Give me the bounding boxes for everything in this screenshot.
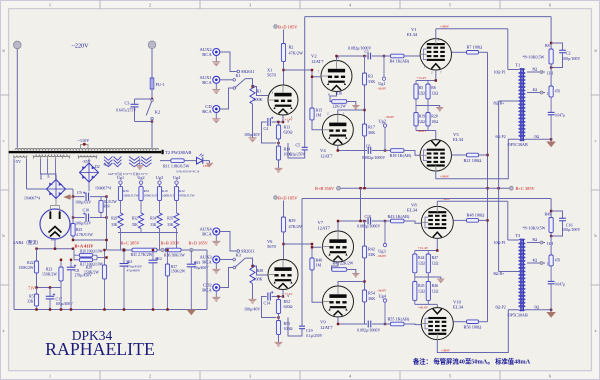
wire CD to K1	[220, 88, 233, 109]
resistor R23 150K/2W	[60, 260, 62, 267]
svg-text:B+D 185V: B+D 185V	[278, 196, 298, 201]
svg-text:D2: D2	[95, 165, 100, 169]
svg-text:R28: R28	[86, 265, 92, 269]
svg-text:C3: C3	[125, 101, 130, 106]
svg-text:0.082µ/1000V: 0.082µ/1000V	[357, 328, 380, 333]
resistor R15 1M	[311, 77, 313, 108]
resistor R17 36K	[362, 124, 366, 136]
capacitor C6 0.082u/1000V	[367, 147, 369, 154]
svg-text:R45: R45	[418, 284, 425, 288]
svg-text:R31 2.7K/2W: R31 2.7K/2W	[131, 253, 153, 257]
svg-text:R34: R34	[150, 217, 156, 221]
resistor R21 100R	[467, 153, 479, 157]
svg-text:100K/0.5W: 100K/0.5W	[123, 194, 139, 198]
wire V2 cathode to R16	[330, 92, 337, 102]
wire V2 plate row	[336, 56, 338, 61]
svg-text:R21 100Ω: R21 100Ω	[464, 158, 482, 163]
svg-text:R5: R5	[29, 294, 34, 298]
wire mains right upper	[151, 49, 153, 78]
svg-text:R25: R25	[76, 228, 82, 232]
capacitor C4 100u/40V	[272, 121, 283, 123]
wire V1 cathode to R5 R6	[435, 70, 437, 81]
svg-text:C12: C12	[156, 257, 162, 261]
capacitor zobel 0.047u	[550, 97, 552, 112]
svg-text:100µ/100V: 100µ/100V	[562, 56, 580, 61]
svg-text:12Ω: 12Ω	[418, 289, 425, 293]
resistor R11 1.8K/0.5W	[160, 160, 171, 162]
svg-text:12Ω: 12Ω	[432, 261, 439, 265]
svg-text:B+A 411V: B+A 411V	[75, 243, 95, 248]
transformer T3 secondary winding	[521, 239, 525, 310]
resistor R13 620R	[278, 122, 280, 125]
wire V6 cathode node	[282, 290, 284, 297]
svg-text:4.7K/0.5W: 4.7K/0.5W	[76, 233, 93, 237]
svg-text:C1: C1	[365, 50, 370, 54]
node Ug2 junction	[384, 149, 386, 151]
resistor R1 100K	[250, 85, 255, 104]
capacitor C5 0.1u/250V feedback	[304, 17, 306, 147]
svg-text:RCA: RCA	[202, 288, 212, 293]
svg-text:B+D 185V: B+D 185V	[278, 25, 298, 30]
wire R42-R54 column	[364, 258, 366, 290]
wire K3 common to R38	[245, 258, 252, 264]
resistor R19 12R	[414, 113, 418, 127]
svg-text:V9: V9	[320, 320, 326, 325]
wire C9-C10 left column	[72, 197, 74, 218]
svg-text:C11: C11	[127, 260, 133, 264]
svg-text:8Ω: 8Ω	[533, 238, 538, 242]
svg-text:R23: R23	[46, 267, 52, 271]
wire R1 to ground	[252, 104, 254, 138]
wire X1 cathode node	[282, 116, 284, 123]
resistor R22 150K/2W	[36, 249, 38, 261]
svg-text:4: 4	[349, 374, 351, 379]
ground under R53	[275, 341, 283, 343]
svg-text:-36.8V: -36.8V	[377, 86, 387, 90]
wire AUX2 to relay contact	[220, 52, 237, 72]
resistor R27 100R/10W	[74, 259, 79, 261]
svg-text:*8~10K0.5W: *8~10K0.5W	[523, 54, 545, 59]
svg-text:d: d	[3, 48, 5, 53]
resistor R44 12R	[413, 254, 417, 273]
svg-text:+399V: +399V	[440, 174, 450, 178]
svg-text:2: 2	[149, 374, 151, 379]
transformer T2 secondary HV	[33, 156, 70, 157]
svg-text:C4: C4	[264, 126, 269, 131]
svg-text:Ug4: Ug4	[379, 293, 387, 298]
T3 secondary tap 8ohm	[527, 242, 545, 244]
svg-text:+398V: +398V	[440, 25, 450, 29]
capacitor C13 10u/400V	[190, 250, 192, 264]
svg-text:620Ω: 620Ω	[284, 304, 293, 309]
svg-text:a: a	[595, 328, 597, 333]
wire CD2 to K3	[220, 268, 233, 288]
wire R39 to V6 plate	[283, 232, 285, 260]
svg-text:R44: R44	[418, 256, 425, 260]
svg-text:K3: K3	[236, 253, 241, 258]
mains terminal L	[13, 41, 21, 49]
T1 secondary tap 8ohm	[527, 71, 545, 73]
svg-text:R12: R12	[179, 189, 185, 193]
svg-text:5670: 5670	[267, 73, 277, 78]
wire AUX3 to K3	[220, 259, 233, 261]
resistor R-zobel 470	[549, 86, 553, 97]
svg-text:+399V: +399V	[441, 197, 451, 201]
wire right filter column	[106, 197, 108, 250]
resistor R29 33K	[118, 213, 123, 229]
resistor R46 12R	[426, 282, 430, 301]
svg-text:100µ/40V: 100µ/40V	[244, 132, 260, 137]
resistor R10 100K/0.5W	[157, 187, 161, 201]
svg-text:6: 6	[549, 374, 551, 379]
wire R34 bottom	[159, 229, 161, 233]
svg-text:5670: 5670	[267, 244, 277, 249]
wire K1 common to R1	[245, 79, 252, 85]
svg-text:0.1µ/250V: 0.1µ/250V	[306, 334, 323, 338]
svg-text:R22: R22	[27, 261, 33, 265]
svg-text:R2: R2	[289, 44, 294, 49]
wire AUX4 to relay contact	[220, 232, 237, 252]
svg-text:12Ω: 12Ω	[418, 120, 425, 124]
svg-text:1N4007*4: 1N4007*4	[24, 197, 40, 201]
svg-text:R49: R49	[545, 211, 552, 216]
svg-text:-6.3V: -6.3V	[103, 163, 112, 167]
svg-text:470K/0.5W: 470K/0.5W	[179, 194, 195, 198]
resistor R5 12R	[414, 84, 418, 99]
transformer T1 core	[520, 68, 522, 141]
svg-text:0Ω: 0Ω	[535, 135, 540, 139]
svg-text:Ug2: Ug2	[379, 118, 386, 123]
wire R44 R47 mid node	[414, 273, 416, 282]
svg-text:R10: R10	[162, 189, 168, 193]
bias feed Ug4	[384, 302, 386, 324]
svg-text:12Ω: 12Ω	[431, 91, 438, 95]
wire T3 P1 feed	[507, 201, 509, 240]
wire R29 bottom	[120, 229, 122, 233]
svg-text:47K/2W: 47K/2W	[289, 50, 303, 55]
transformer T2 core bar	[9, 151, 162, 153]
wire R38 to ground	[252, 284, 254, 300]
svg-text:0.082µ/1000V: 0.082µ/1000V	[348, 45, 371, 50]
resistor R3 33K	[364, 56, 366, 73]
wire 71V row	[36, 273, 38, 288]
svg-text:SR2611: SR2611	[241, 69, 255, 74]
resistor R42 33K	[362, 246, 366, 258]
svg-text:R41 22K/2W: R41 22K/2W	[333, 262, 354, 266]
svg-text:-5V: -5V	[15, 159, 22, 164]
ground under R14	[275, 167, 283, 169]
wire V8 screen to R48	[453, 219, 466, 221]
svg-text:R6: R6	[431, 86, 436, 90]
svg-text:-36.8V: -36.8V	[377, 254, 387, 258]
svg-text:R46: R46	[432, 284, 439, 288]
resistor R56 100R	[467, 320, 479, 324]
svg-text:36K: 36K	[368, 130, 375, 135]
capacitor C3	[135, 98, 153, 100]
RCA jack AUX3	[213, 256, 220, 263]
svg-text:R11 1.8K/0.5W: R11 1.8K/0.5W	[163, 163, 190, 168]
wire R45 R46 bottom to V10	[414, 300, 416, 304]
svg-text:100K: 100K	[254, 97, 263, 102]
svg-text:R48 100Ω: R48 100Ω	[467, 213, 485, 218]
wire T1 T3 B+ vertical	[498, 101, 500, 272]
svg-text:b: b	[3, 233, 5, 238]
svg-text:FU-1: FU-1	[156, 82, 165, 87]
svg-text:8Ω: 8Ω	[533, 68, 538, 72]
node B+D 185V upper	[274, 25, 278, 29]
svg-text:~110V: ~110V	[78, 138, 91, 143]
T3 secondary tap 4ohm	[527, 262, 545, 264]
resistor R41 22K/2W	[332, 268, 347, 272]
bridge rectifier D2	[80, 163, 99, 182]
wire V7 cathode to R41	[332, 262, 339, 270]
svg-text:R20: R20	[431, 115, 438, 119]
wire PSU ground bus	[14, 309, 207, 311]
arrow marker to 5AR4	[63, 194, 70, 199]
resistor R49 8-10K	[549, 218, 553, 233]
svg-text:C13: C13	[194, 261, 200, 265]
svg-text:R18 1K(AB): R18 1K(AB)	[390, 153, 412, 158]
svg-text:R3: R3	[368, 73, 373, 78]
svg-text:R1: R1	[257, 89, 262, 94]
heater winding center tap ground	[139, 158, 141, 166]
svg-text:R37: R37	[171, 265, 177, 269]
label T2 PW280AB	[162, 150, 164, 154]
svg-text:B+C 385V: B+C 385V	[516, 186, 536, 191]
resistor R45 12R	[413, 282, 417, 301]
svg-text:1M: 1M	[316, 112, 322, 117]
PSU bus ground arrow	[187, 310, 197, 316]
wire B+ horizontal bus	[340, 187, 509, 189]
svg-text:C8: C8	[75, 268, 80, 273]
svg-text:470: 470	[555, 259, 561, 263]
wire V6 plate to V7 grid	[284, 243, 313, 245]
T3 secondary bottom tap	[525, 309, 551, 311]
fuse FU-1	[150, 78, 154, 89]
T1 secondary tap 4ohm	[527, 92, 545, 94]
svg-text:Ug4: Ug4	[173, 175, 181, 180]
wire X1 plate to V2 grid	[284, 69, 313, 71]
svg-text:12Ω: 12Ω	[432, 289, 439, 293]
mains terminal N	[148, 41, 156, 49]
svg-text:C6: C6	[366, 144, 371, 148]
node B+C 385V	[123, 249, 125, 251]
switch K1 arm	[235, 79, 245, 88]
RCA jack CD2	[213, 284, 220, 291]
svg-text:4Ω: 4Ω	[533, 259, 538, 263]
svg-text:36K: 36K	[368, 296, 375, 301]
svg-text:R38: R38	[257, 268, 264, 273]
svg-text:33K: 33K	[368, 252, 375, 257]
svg-text:c: c	[595, 138, 597, 143]
svg-text:C5: C5	[296, 143, 301, 148]
wire Ug3 mid	[159, 201, 161, 214]
svg-text:R16: R16	[336, 92, 343, 96]
node B+A 411V	[37, 248, 74, 250]
svg-text:RCA: RCA	[202, 52, 212, 57]
wire V9 cathode row	[337, 317, 339, 324]
svg-text:1N4148 E04*4C18: 1N4148 E04*4C18	[176, 169, 200, 173]
svg-text:450V: 450V	[39, 172, 43, 180]
wire R2 to X1 plate	[283, 62, 285, 86]
svg-text:+46.8V: +46.8V	[418, 306, 429, 310]
svg-text:R56 100Ω: R56 100Ω	[464, 325, 482, 330]
resistor R2 47K/2W	[281, 44, 285, 62]
resistor R34 33K	[157, 213, 162, 229]
resistor R35 33K	[174, 213, 179, 229]
svg-text:SR2611: SR2611	[241, 248, 255, 253]
capacitor C11	[123, 250, 125, 264]
svg-text:33K: 33K	[368, 79, 375, 84]
resistor R24 1K/0.5W	[100, 197, 102, 201]
wire LED to ground	[203, 160, 210, 162]
svg-text:EL34: EL34	[453, 305, 464, 310]
switch K3 arm	[235, 258, 245, 267]
wire R41 right to ground	[347, 270, 356, 274]
bridge rectifier D1	[47, 180, 66, 199]
svg-text:Ug1: Ug1	[378, 81, 385, 86]
resistor R36 39K/1W	[166, 248, 182, 252]
svg-text:*8~10K/0.5W: *8~10K/0.5W	[523, 226, 546, 231]
svg-text:R32: R32	[132, 217, 138, 221]
resistor R7 100R	[467, 51, 479, 55]
svg-text:R19: R19	[419, 115, 426, 119]
svg-text:100µ/63V: 100µ/63V	[75, 220, 91, 225]
svg-text:47K/2W: 47K/2W	[289, 224, 303, 229]
wire V7 grid	[312, 244, 322, 247]
wire mains left	[16, 49, 18, 148]
node B+B 350V bus	[337, 186, 341, 190]
wire R3-R17 column	[364, 85, 366, 124]
svg-text:0.647u/275V: 0.647u/275V	[116, 109, 136, 113]
wire V9 plate up	[338, 282, 365, 287]
resistor R16 22K/2W	[332, 100, 347, 104]
wire R49 to zobel lower	[550, 233, 552, 256]
svg-text:1K/0.5W: 1K/0.5W	[104, 200, 118, 204]
svg-text:0.047µ: 0.047µ	[555, 283, 565, 287]
resistor R30 100K/0.5W	[118, 187, 122, 201]
resistor R6 12R	[426, 84, 430, 99]
wire R32 bottom	[140, 229, 142, 233]
svg-text:10Ω P1: 10Ω P1	[494, 240, 506, 245]
svg-text:33K: 33K	[27, 299, 34, 303]
svg-text:100µ/63V: 100µ/63V	[75, 199, 91, 204]
svg-text:C2: C2	[566, 51, 571, 56]
svg-text:a: a	[3, 328, 5, 333]
wire bus to R49	[550, 199, 552, 218]
resistor R14 100R	[277, 142, 279, 144]
wire V10 plate to T3 P2	[437, 310, 519, 353]
tube V4 12AT7	[322, 114, 353, 145]
svg-text:6: 6	[549, 2, 551, 7]
svg-text:EL34: EL34	[407, 208, 418, 213]
svg-text:K1: K1	[236, 73, 241, 78]
RCA jack AUX1	[213, 76, 220, 83]
bias feed Ug3	[384, 221, 386, 243]
resistor R31 2.7K/2W	[132, 248, 157, 252]
wire R16 right to ground	[347, 102, 356, 106]
T3 B+ tap	[499, 271, 519, 273]
svg-text:RCA: RCA	[202, 260, 212, 265]
transformer T3 core	[520, 239, 522, 312]
svg-text:4: 4	[349, 2, 351, 7]
wire R35 bottom	[176, 229, 178, 233]
svg-text:OP5C30AB: OP5C30AB	[508, 313, 528, 318]
svg-text:12AT7: 12AT7	[320, 325, 333, 330]
svg-text:6Ω P2: 6Ω P2	[496, 134, 506, 139]
svg-text:R26 100Ω/10W: R26 100Ω/10W	[80, 250, 104, 254]
capacitor C10	[73, 217, 85, 219]
svg-text:R42: R42	[368, 246, 375, 251]
svg-text:33K: 33K	[111, 223, 118, 227]
svg-text:C18: C18	[365, 215, 371, 219]
svg-text:150K/2W: 150K/2W	[42, 272, 57, 276]
wire R5 R6 mid node	[415, 99, 417, 113]
svg-text:+15.4V: +15.4V	[417, 76, 428, 80]
capacitor zobel lower 0.047u	[550, 266, 552, 281]
svg-text:B+C 385V: B+C 385V	[121, 241, 141, 246]
wire B+ row	[107, 249, 208, 251]
svg-text:R47: R47	[432, 256, 439, 260]
svg-text:R5: R5	[419, 86, 424, 90]
capacitor C7 0.082u/1000V	[365, 220, 367, 222]
resistor R28 150K/2W	[104, 250, 106, 265]
switch K2	[146, 101, 152, 116]
node Ug1 junction	[383, 55, 385, 57]
svg-text:1: 1	[49, 2, 51, 7]
svg-text:0Ω: 0Ω	[535, 305, 540, 309]
transformer T2 secondary -35V	[78, 156, 97, 157]
svg-text:V2: V2	[311, 54, 317, 59]
svg-text:22K/2W: 22K/2W	[333, 104, 347, 108]
wire R15 to V4 grid	[312, 120, 322, 130]
resistor R37 150K/2W	[167, 250, 169, 264]
svg-text:R54: R54	[368, 290, 376, 295]
svg-text:T1: T1	[515, 63, 520, 68]
svg-text:Ug1: Ug1	[117, 175, 124, 180]
transformer T2 primary winding	[15, 148, 159, 149]
resistor R4 1K(AB)	[391, 54, 405, 58]
svg-text:EL34: EL34	[453, 137, 464, 142]
svg-text:12Ω: 12Ω	[418, 261, 425, 265]
wire V8 plate to top	[436, 201, 438, 206]
wire R25 bottom row	[73, 239, 107, 241]
svg-text:R30: R30	[123, 189, 129, 193]
resistor R47 12R	[426, 254, 430, 273]
svg-text:RAPHAELITE: RAPHAELITE	[45, 339, 155, 359]
svg-text:+46.8V: +46.8V	[417, 129, 428, 133]
svg-text:3: 3	[249, 374, 251, 379]
wire bus to R8	[550, 17, 552, 49]
svg-text:b: b	[595, 233, 597, 238]
wire V1 plate to top	[435, 29, 437, 39]
svg-text:Ug3: Ug3	[378, 249, 385, 254]
svg-text:47µ/400V: 47µ/400V	[127, 269, 141, 273]
svg-text:150K/2W: 150K/2W	[19, 266, 34, 270]
svg-text:5AR4（整流）: 5AR4（整流）	[13, 239, 41, 246]
resistor R26 100R/10W	[74, 254, 79, 256]
svg-text:K2: K2	[155, 110, 160, 115]
svg-text:13H: 13H	[547, 242, 554, 246]
svg-text:RCA: RCA	[202, 232, 212, 237]
svg-text:OP5C30AB: OP5C30AB	[508, 142, 528, 147]
svg-text:150K/2W: 150K/2W	[171, 270, 186, 274]
svg-text:33K: 33K	[150, 223, 157, 227]
wire R26 R27 verticals	[73, 249, 75, 260]
capacitor C17 100u/400V	[49, 288, 51, 297]
wire Ug1 mid	[120, 201, 122, 214]
svg-text:B+B 350V: B+B 350V	[315, 186, 335, 191]
